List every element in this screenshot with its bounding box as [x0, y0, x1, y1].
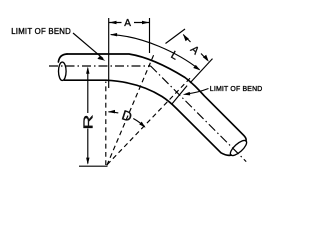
diagonal A dimension line upper segment	[183, 35, 190, 43]
arrowhead R top	[86, 67, 89, 74]
arrowhead leader right limit-of-bend	[183, 92, 190, 96]
tube inner line	[65, 80, 232, 155]
tube outer line	[67, 54, 246, 141]
arrowhead leader left limit-of-bend	[97, 56, 105, 61]
arrowhead diagonal A upper	[183, 34, 189, 41]
svg-text:A: A	[124, 18, 131, 29]
leader line from right LIMIT OF BEND text	[187, 89, 209, 94]
tube left end cap curve	[58, 54, 67, 62]
centerline diagonal (dash-dot)	[151, 66, 247, 162]
diagonal A dimension line lower segment	[201, 54, 207, 61]
arrowhead R bottom	[86, 158, 89, 165]
arrowhead L arc end	[193, 65, 200, 71]
arrowhead D left	[108, 110, 115, 114]
L arc dimension line	[111, 35, 200, 70]
arrowhead A-top right	[142, 21, 149, 24]
upper tick of diagonal A	[166, 29, 186, 44]
svg-text:LIMIT OF BEND: LIMIT OF BEND	[11, 27, 71, 36]
baseline tick at bend center	[79, 165, 108, 167]
D arc dimension line (broken for text)	[108, 112, 144, 127]
bisector radius line (dashed)	[107, 53, 155, 165]
centerline horizontal (dash-dot)	[49, 65, 151, 67]
R dimension line (broken for text)	[87, 69, 89, 164]
radius line to T2 (dashed)	[107, 78, 190, 164]
tick across tube at limit of bend T2	[172, 86, 187, 104]
extension line at apex of bend	[149, 18, 151, 53]
lower tick of diagonal A	[190, 59, 213, 83]
svg-text:LIMIT OF BEND: LIMIT OF BEND	[210, 86, 263, 93]
leader line from left LIMIT OF BEND text	[73, 33, 103, 59]
tube left end ellipse	[59, 62, 67, 80]
tube right end ellipse	[228, 138, 249, 158]
svg-text:R: R	[80, 115, 95, 130]
dimension line A top	[109, 22, 149, 24]
arrowhead D right	[139, 122, 145, 128]
extension line at limit of bend T1	[108, 18, 110, 88]
radius line to T1 (vertical dashed)	[105, 82, 107, 166]
arrowhead L arc start	[110, 33, 117, 36]
arrowhead diagonal A lower	[203, 55, 209, 62]
arrowhead A-top left	[109, 21, 116, 24]
